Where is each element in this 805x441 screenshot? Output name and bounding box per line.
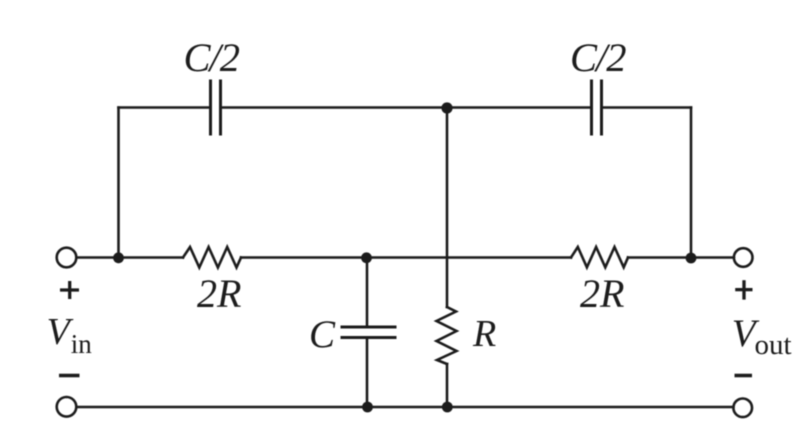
wire: center vertical upper (node A down through mid rail to resistor R) — [446, 108, 449, 308]
wire: mid rail between 2R and right 2R — [241, 256, 571, 259]
svg-text:2R: 2R — [197, 271, 241, 316]
wire: top rail left segment (corner to left C/2 plate) — [119, 106, 210, 109]
svg-text:R: R — [472, 313, 496, 355]
junction dot: input node on mid rail — [113, 252, 124, 263]
wire: left vertical (top rail down to input node) — [117, 108, 120, 258]
svg-text:in: in — [71, 329, 93, 359]
resistor R1 value 2R (left zigzag) — [183, 247, 241, 268]
terminal: Vin + (open circle) — [57, 248, 77, 268]
svg-text:C/2: C/2 — [184, 35, 240, 80]
svg-text:C/2: C/2 — [570, 35, 626, 80]
svg-text:out: out — [755, 329, 792, 361]
capacitor C1 value C/2 (left, plates) — [211, 81, 221, 134]
svg-text:C: C — [309, 313, 336, 356]
wire: mid rail from Vin terminal to resistor 2R left — [77, 256, 184, 259]
wire: center vertical lower (resistor R to bottom rail) — [446, 364, 449, 407]
wire: right vertical (top rail down to output node) — [690, 108, 693, 258]
junction dot: mid rail / output node — [686, 253, 697, 264]
svg-text:2R: 2R — [580, 271, 624, 316]
junction dot: bottom rail / resistor R branch — [442, 402, 453, 413]
svg-text:V: V — [47, 311, 74, 353]
resistor R3 value R (center vertical zigzag) — [437, 307, 457, 364]
polarity + (output) — [735, 280, 752, 299]
wire: capacitor C branch upper (mid rail to top plate) — [366, 258, 369, 327]
terminal: Vout + (open circle) — [734, 248, 753, 267]
node A junction dot (top rail / center branch) — [441, 102, 452, 113]
polarity + (input) — [60, 281, 79, 299]
wire: top rail middle segment (left C/2 to right C/2 through node A) — [222, 106, 590, 109]
capacitor C3 value C (center, plates) — [342, 327, 395, 338]
polarity - (output) — [735, 374, 753, 377]
polarity - (input) — [59, 374, 80, 377]
label Vin — [47, 311, 93, 359]
label Vout — [732, 312, 792, 361]
wire: capacitor C branch lower (bottom plate to bottom rail) — [366, 338, 369, 407]
wire: top rail right segment (right C/2 to right corner) — [603, 106, 691, 109]
junction dot: bottom rail / capacitor C branch — [362, 402, 373, 413]
wire: bottom rail — [77, 406, 734, 409]
junction dot: mid rail / capacitor C branch — [361, 252, 372, 263]
resistor R2 value 2R (right zigzag) — [571, 247, 628, 267]
capacitor C2 value C/2 (right, plates) — [592, 81, 602, 134]
wire: mid rail from right 2R to Vout terminal — [628, 256, 734, 259]
terminal: Vout - (open circle) — [733, 399, 752, 418]
terminal: Vin - (open circle) — [57, 397, 77, 417]
